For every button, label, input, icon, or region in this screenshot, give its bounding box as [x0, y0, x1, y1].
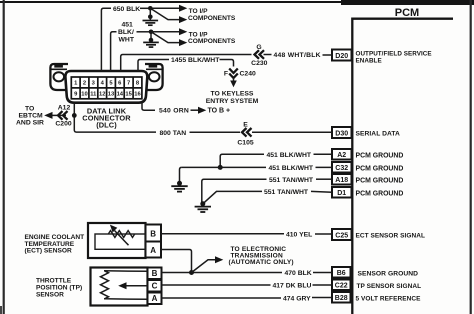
svg-text:12: 12 — [99, 92, 105, 98]
DLC right mounting ear — [145, 64, 163, 90]
svg-text:C105: C105 — [237, 139, 253, 146]
wire C240 down arrow — [230, 78, 237, 87]
svg-text:ECT SENSOR SIGNAL: ECT SENSOR SIGNAL — [356, 232, 425, 239]
pin D20 — [332, 50, 352, 61]
pin C22 — [332, 280, 351, 291]
pin D30 — [332, 127, 352, 138]
label PCM GROUND C32 — [356, 165, 404, 172]
svg-text:13: 13 — [108, 92, 115, 98]
svg-text:15: 15 — [125, 92, 132, 98]
svg-text:C240: C240 — [240, 70, 256, 77]
label PCM GROUND D1 — [356, 190, 404, 197]
label F — [224, 70, 228, 77]
label C230 — [251, 60, 267, 67]
wire 1455 to C240 elbow — [220, 60, 234, 67]
wire into A18 — [316, 178, 332, 180]
label 470 BLK — [285, 270, 312, 277]
DLC connector body — [65, 71, 147, 103]
node junction 650 BLK — [148, 6, 153, 11]
svg-text:C32: C32 — [335, 165, 348, 172]
wire 540 arrow to B+ — [191, 107, 207, 114]
svg-text:COMPONENTS: COMPONENTS — [188, 38, 236, 45]
pin A18 — [332, 174, 352, 185]
svg-text:B: B — [150, 229, 156, 238]
svg-text:BLK/: BLK/ — [118, 29, 134, 36]
svg-text:B28: B28 — [335, 295, 348, 302]
node splice ground 2 — [200, 201, 205, 206]
node junction sensor ground — [189, 270, 194, 275]
pin C25 — [332, 229, 352, 240]
svg-text:E: E — [243, 121, 248, 128]
svg-text:16: 16 — [134, 92, 141, 98]
wire DLC pin ground drop — [73, 103, 75, 130]
svg-text:PCM GROUND: PCM GROUND — [356, 152, 404, 159]
svg-text:COMPONENTS: COMPONENTS — [188, 15, 236, 22]
svg-text:PCM: PCM — [395, 7, 419, 19]
ground 2 — [195, 207, 211, 212]
svg-text:5 VOLT REFERENCE: 5 VOLT REFERENCE — [356, 295, 422, 302]
label 540 ORN — [159, 108, 189, 115]
wire into B6 — [313, 272, 332, 274]
wire 410 YEL — [161, 233, 284, 235]
svg-text:G: G — [256, 44, 261, 51]
label 800 TAN — [160, 130, 187, 137]
pin B6 — [332, 267, 351, 278]
svg-text:A: A — [152, 294, 158, 303]
label OUTPUT/FIELD SERVICE ENABLE — [356, 51, 432, 65]
svg-text:C25: C25 — [335, 232, 348, 239]
label 474 GRY — [283, 296, 311, 303]
frame left border — [3, 0, 5, 314]
label SENSOR GROUND — [358, 270, 419, 277]
wire into C32 — [316, 166, 333, 168]
svg-text:(ECT) SENSOR: (ECT) SENSOR — [25, 247, 72, 254]
frame top-right thick bar — [341, 0, 474, 5]
svg-text:SENSOR: SENSOR — [36, 291, 64, 298]
wire 540 ORN from DLC bottom right — [142, 103, 155, 111]
wire into C25 — [315, 233, 332, 235]
label 551 TAN/WHT D1 — [264, 189, 309, 196]
label TO EBTCM AND SIR — [16, 105, 44, 126]
wire into D1 — [311, 190, 332, 193]
TP sensor box — [91, 268, 148, 306]
label THROTTLE POSITION (TP) SENSOR — [36, 277, 82, 298]
svg-text:TO: TO — [25, 105, 34, 112]
wire 800 TAN horizontal — [74, 130, 156, 132]
svg-text:2: 2 — [83, 81, 86, 87]
label DATA LINK CONNECTOR (DLC) — [82, 106, 131, 129]
svg-text:PCM GROUND: PCM GROUND — [356, 190, 404, 197]
svg-text:F: F — [224, 70, 228, 77]
svg-text:14: 14 — [117, 92, 124, 98]
label 451 BLK/WHT — [118, 22, 135, 44]
wire 451 diagonal to I/P arrow 2 — [151, 32, 187, 46]
svg-text:B6: B6 — [337, 270, 346, 277]
label A12 — [58, 104, 71, 111]
svg-text:PCM GROUND: PCM GROUND — [356, 165, 404, 172]
svg-text:448 WHT/BLK: 448 WHT/BLK — [274, 52, 321, 59]
svg-text:TO KEYLESS: TO KEYLESS — [211, 91, 254, 98]
label 451 BLK/WHT A2 — [267, 152, 312, 159]
wire branch to transmission — [192, 256, 224, 272]
svg-text:(DLC): (DLC) — [96, 121, 117, 130]
connector C105 chevron — [242, 128, 252, 137]
label ENGINE COOLANT TEMPERATURE (ECT) SENSOR — [25, 234, 85, 254]
svg-text:800 TAN: 800 TAN — [160, 130, 187, 137]
wire 1455 BLK/WHT riser from pin 8 — [138, 60, 169, 72]
wire 448 after C230 — [264, 54, 272, 56]
svg-text:474 GRY: 474 GRY — [283, 296, 311, 303]
ECT thermistor — [108, 225, 134, 246]
label E — [243, 121, 248, 128]
svg-text:C230: C230 — [251, 60, 267, 67]
frame bottom-left mark — [0, 306, 2, 314]
svg-text:POSITION (TP): POSITION (TP) — [36, 284, 82, 291]
wire 470 BLK — [162, 272, 283, 274]
svg-text:451 BLK/WHT: 451 BLK/WHT — [267, 152, 312, 159]
ECT sensor box — [88, 223, 146, 258]
label 551 TAN/WHT A18 — [269, 177, 314, 184]
svg-text:A18: A18 — [335, 177, 348, 184]
PCM box outline — [352, 19, 453, 314]
wire drop to ground 1 — [180, 167, 182, 186]
svg-text:551 TAN/WHT: 551 TAN/WHT — [264, 189, 309, 196]
ECT internal loop — [95, 234, 146, 249]
svg-text:C: C — [152, 282, 158, 291]
wire 451 to I/P arrow 1 — [151, 28, 187, 35]
wire 800 TAN into D30 — [252, 131, 332, 133]
svg-text:TO B +: TO B + — [208, 107, 231, 114]
svg-text:WHT: WHT — [119, 36, 135, 43]
wire 551 TAN/WHT to A18 — [202, 179, 267, 202]
TP pin C — [148, 280, 162, 292]
pin B28 — [332, 292, 351, 303]
svg-text:470 BLK: 470 BLK — [285, 270, 312, 277]
svg-text:THROTTLE: THROTTLE — [36, 277, 72, 284]
svg-text:AND SIR: AND SIR — [16, 119, 44, 126]
TP pin B — [148, 268, 162, 280]
svg-text:C200: C200 — [55, 121, 71, 128]
svg-text:B: B — [152, 269, 158, 278]
svg-text:SERIAL DATA: SERIAL DATA — [356, 131, 401, 138]
svg-text:1455 BLK/WHT: 1455 BLK/WHT — [171, 57, 220, 64]
wire 650 diagonal to I/P arrow 2 — [150, 8, 187, 23]
wire 800 TAN to C105 — [190, 131, 241, 133]
wire 417 DK BLU — [162, 284, 271, 286]
wire into C22 — [313, 284, 333, 286]
node splice above ground 451 — [149, 32, 154, 43]
node splice above ground 650 — [148, 8, 153, 20]
svg-text:11: 11 — [90, 92, 97, 98]
svg-text:TP SENSOR SIGNAL: TP SENSOR SIGNAL — [357, 283, 422, 290]
svg-text:OUTPUT/FIELD SERVICE: OUTPUT/FIELD SERVICE — [356, 51, 432, 58]
DLC left ear hole — [54, 72, 65, 81]
wire 650 BLK to junction — [140, 7, 150, 9]
TP internal wiring — [104, 271, 148, 300]
svg-text:PCM GROUND: PCM GROUND — [356, 177, 404, 184]
label SERIAL DATA — [356, 131, 401, 138]
label C105 — [237, 139, 253, 146]
svg-text:(AUTOMATIC ONLY): (AUTOMATIC ONLY) — [229, 259, 294, 266]
label TO KEYLESS ENTRY SYSTEM — [206, 91, 259, 105]
svg-text:ENTRY SYSTEM: ENTRY SYSTEM — [206, 98, 259, 105]
DLC pin grid — [71, 77, 142, 99]
svg-text:D30: D30 — [335, 130, 348, 137]
label TO I/P COMPONENTS 2 — [188, 31, 236, 45]
wire 451 BLK/WHT riser from pin 5 — [111, 32, 117, 71]
svg-text:7: 7 — [127, 81, 130, 87]
ground 1 — [171, 186, 187, 191]
pin C32 — [332, 162, 352, 173]
TP wiper arrow — [118, 282, 147, 289]
label 5 VOLT REFERENCE — [356, 295, 422, 302]
svg-text:410 YEL: 410 YEL — [286, 231, 312, 238]
wire to EBTCM arrow — [44, 112, 66, 119]
frame top line — [0, 1, 342, 3]
svg-text:451: 451 — [122, 22, 134, 29]
wire 551 TAN/WHT to D1 diagonal — [204, 191, 263, 203]
wire 451 to junction — [137, 31, 152, 33]
connector C200 chevron — [58, 111, 68, 120]
svg-text:551 TAN/WHT: 551 TAN/WHT — [269, 177, 314, 184]
DLC right ear hole — [149, 72, 160, 81]
wire ECT A to sensor ground node — [161, 250, 192, 273]
node junction A12 — [72, 113, 77, 118]
svg-text:SENSOR GROUND: SENSOR GROUND — [358, 270, 419, 277]
label ECT SENSOR SIGNAL — [356, 232, 425, 239]
pin A2 — [332, 149, 352, 160]
TP pin A — [148, 293, 162, 305]
label 448 WHT/BLK — [274, 52, 321, 59]
node junction 451 grounds — [218, 165, 223, 170]
label 451 BLK/WHT C32 — [269, 165, 314, 172]
svg-text:A: A — [150, 246, 156, 255]
ground for 650 BLK — [143, 21, 159, 26]
svg-text:EBTCM: EBTCM — [19, 112, 44, 119]
svg-text:ENABLE: ENABLE — [356, 58, 382, 65]
label TO ELECTRONIC TRANSMISSION (AUTOMATIC ONLY) — [229, 246, 294, 266]
svg-text:D1: D1 — [337, 190, 346, 197]
svg-text:A2: A2 — [337, 152, 346, 159]
TP potentiometer — [101, 271, 109, 299]
svg-text:10: 10 — [81, 92, 87, 98]
label G — [256, 44, 261, 51]
label 650 BLK — [113, 6, 140, 13]
wire into B28 — [312, 297, 332, 299]
label TP SENSOR SIGNAL — [357, 283, 422, 290]
label TO I/P COMPONENTS 1 — [188, 8, 236, 22]
label TO B + — [208, 107, 231, 114]
DLC pin numbers row 2 — [74, 92, 141, 98]
label 1455 BLK/WHT — [171, 57, 220, 64]
connector C230 chevron — [255, 50, 265, 59]
svg-text:650 BLK: 650 BLK — [113, 6, 140, 13]
wire 650 to I/P arrow 1 — [150, 5, 187, 12]
wire 650 BLK riser from pin 4 — [101, 8, 111, 71]
svg-text:D20: D20 — [335, 53, 348, 60]
ECT pin B — [146, 225, 162, 242]
wire 448 WHT/BLK riser from pin 6 — [121, 55, 252, 72]
DLC left mounting ear — [50, 64, 68, 90]
svg-text:C22: C22 — [335, 283, 348, 290]
svg-text:A12: A12 — [58, 104, 71, 111]
wire 451 BLK/WHT to C32 — [182, 166, 266, 168]
wire 451 BLK/WHT to A2 — [220, 154, 264, 165]
svg-text:417 DK BLU: 417 DK BLU — [273, 283, 312, 290]
label 417 DK BLU — [273, 283, 312, 290]
node junction 451 — [149, 30, 154, 35]
wire 448 into D20 — [323, 54, 333, 56]
frame right border — [470, 0, 472, 314]
label C240 — [240, 70, 256, 77]
wire 474 GRY — [162, 297, 282, 299]
node splice ground 1 — [177, 181, 182, 186]
wire into A2 — [314, 153, 333, 155]
connector C240 chevron down — [229, 69, 238, 79]
DLC pin numbers row 1 — [74, 81, 140, 87]
ground for 451 BLK/WHT — [143, 42, 159, 47]
ECT pin A — [146, 242, 162, 258]
svg-text:540 ORN: 540 ORN — [159, 108, 189, 115]
pin D1 — [332, 187, 352, 198]
svg-text:451 BLK/WHT: 451 BLK/WHT — [269, 165, 314, 172]
PCM label — [395, 7, 419, 19]
label 410 YEL — [286, 231, 312, 238]
label PCM GROUND A18 — [356, 177, 404, 184]
label C200 — [55, 121, 71, 128]
label PCM GROUND A2 — [356, 152, 404, 159]
